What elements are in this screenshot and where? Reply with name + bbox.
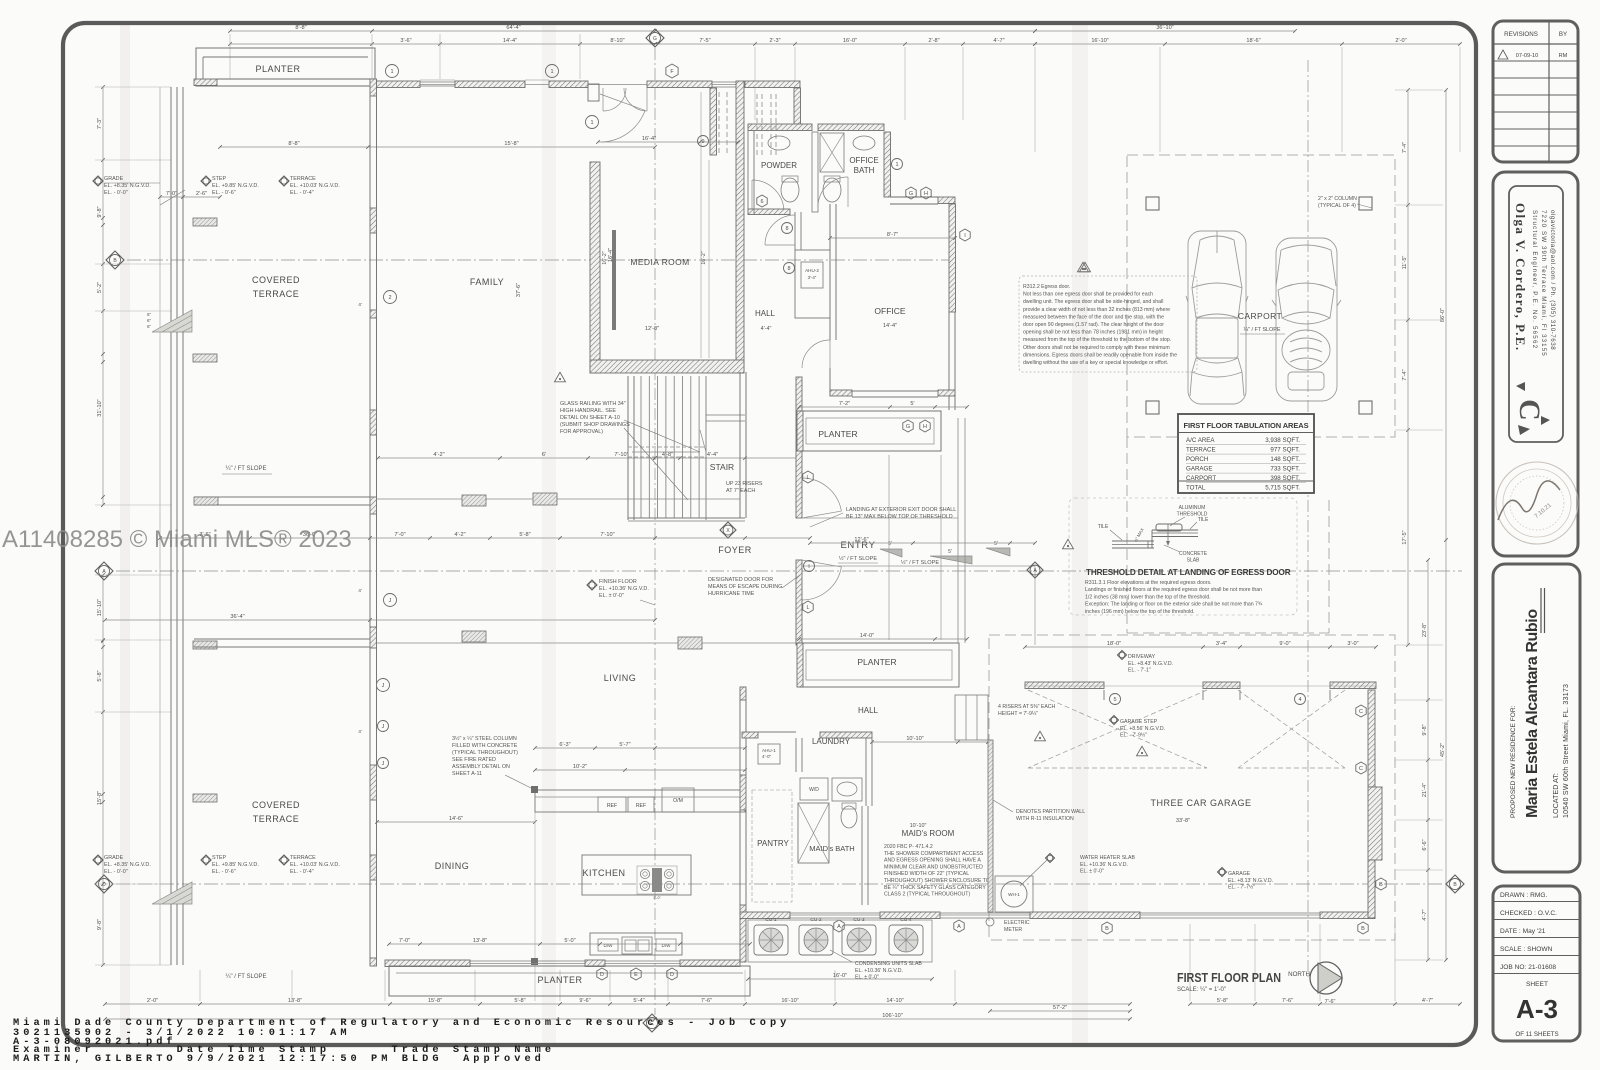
svg-text:A11408285 © Miami MLS® 2023: A11408285 © Miami MLS® 2023: [2, 526, 352, 553]
svg-text:TERRACE: TERRACE: [290, 176, 316, 182]
svg-text:PLANTER: PLANTER: [255, 64, 300, 74]
svg-text:GARAGE: GARAGE: [1186, 466, 1212, 473]
svg-text:L: L: [806, 605, 809, 611]
svg-text:EL. +10.36' N.G.V.D.: EL. +10.36' N.G.V.D.: [855, 968, 903, 974]
bottom wall kitchen wing: [385, 960, 470, 967]
svg-text:2'-6": 2'-6": [196, 191, 207, 197]
svg-text:HEIGHT = 7'-9¼": HEIGHT = 7'-9¼": [998, 711, 1038, 717]
svg-text:CHECKED : O.V.C.: CHECKED : O.V.C.: [1500, 910, 1557, 917]
revisions box: [1493, 21, 1578, 162]
svg-text:4'-2": 4'-2": [433, 452, 444, 458]
svg-text:EL. +9.85' N.G.V.D.: EL. +9.85' N.G.V.D.: [212, 183, 259, 189]
svg-text:7'-2": 7'-2": [839, 401, 850, 407]
glass railing note: [555, 372, 566, 382]
svg-text:6: 6: [760, 199, 763, 205]
car 2: [1272, 238, 1341, 401]
svg-text:10'-2": 10'-2": [573, 764, 587, 770]
wall terrace/family x=370: [370, 79, 377, 96]
svg-text:8: 8: [787, 266, 790, 272]
dashed chase above powder: [756, 94, 758, 158]
svg-text:OF 11 SHEETS: OF 11 SHEETS: [1515, 1031, 1558, 1038]
svg-text:CU-3: CU-3: [853, 917, 865, 923]
svg-text:DINING: DINING: [435, 861, 470, 871]
office walls: [829, 204, 831, 340]
svg-text:8'-7": 8'-7": [887, 232, 898, 238]
svg-text:Not less than one egress door: Not less than one egress door shall be p…: [1023, 292, 1153, 298]
svg-text:33'-8": 33'-8": [1176, 818, 1190, 824]
svg-text:MEDIA ROOM: MEDIA ROOM: [630, 257, 689, 267]
svg-text:EL. - 7'-1": EL. - 7'-1": [1128, 668, 1151, 674]
svg-text:3'-0": 3'-0": [1347, 641, 1358, 647]
svg-text:EL. +10.03' N.G.V.D.: EL. +10.03' N.G.V.D.: [290, 862, 340, 868]
carport dashed outline: [1127, 155, 1395, 437]
svg-text:dimensions. Egress doors shall: dimensions. Egress doors shall be readil…: [1023, 352, 1177, 358]
media av cabinet: [612, 230, 616, 330]
svg-text:EL. - 0'-6": EL. - 0'-6": [212, 190, 236, 196]
condensing units slab: [748, 920, 932, 962]
svg-text:EL. - 7'-9½": EL. - 7'-9½": [1120, 732, 1147, 739]
svg-text:TERRACE: TERRACE: [290, 855, 316, 861]
office south wall: [830, 390, 852, 396]
svg-text:5'-8": 5'-8": [1217, 998, 1228, 1004]
svg-text:FINISHED WIDTH OF 22" (TYPICAL: FINISHED WIDTH OF 22" (TYPICAL: [884, 871, 969, 877]
NE wing walls: [745, 81, 800, 88]
svg-text:D: D: [670, 972, 674, 978]
svg-text:7'-4": 7'-4": [1402, 369, 1408, 380]
terrace mid slab edges: [194, 496, 370, 498]
right dimension chains: [1407, 90, 1409, 645]
svg-text:EL. ± 0'-0": EL. ± 0'-0": [855, 975, 879, 981]
hex bubbles bottom: [597, 968, 607, 980]
wall right of stair: [739, 372, 741, 518]
grid diamond right: [1446, 875, 1464, 893]
svg-text:EL. +8.56' N.G.V.D.: EL. +8.56' N.G.V.D.: [1120, 726, 1165, 732]
svg-text:733 SQFT.: 733 SQFT.: [1270, 466, 1300, 473]
wall top family: [375, 81, 420, 88]
svg-text:C: C: [1359, 766, 1363, 772]
media room left wall: [590, 162, 600, 373]
svg-text:STEP: STEP: [212, 176, 226, 182]
condensing unit CU-3: [842, 925, 876, 955]
svg-text:5': 5': [948, 549, 952, 555]
svg-text:STEP: STEP: [212, 855, 226, 861]
svg-text:HALL: HALL: [858, 706, 879, 715]
svg-text:A/C AREA: A/C AREA: [1186, 437, 1215, 444]
svg-text:6'-6": 6'-6": [1422, 839, 1428, 850]
svg-text:(TYPICAL OF 4): (TYPICAL OF 4): [1318, 203, 1356, 209]
svg-text:A-3: A-3: [1516, 994, 1558, 1024]
svg-text:DETAIL ON SHEET A-10: DETAIL ON SHEET A-10: [560, 415, 620, 421]
wall notch: [588, 84, 599, 101]
svg-text:B: B: [1379, 882, 1383, 888]
svg-text:11'-5": 11'-5": [1402, 256, 1408, 270]
garage door X braces: [1028, 690, 1207, 768]
svg-text:12'-8": 12'-8": [645, 326, 659, 332]
bottom wall maids wing: [740, 912, 790, 919]
svg-text:9'-0": 9'-0": [1279, 641, 1290, 647]
svg-text:UP 23 RISERS: UP 23 RISERS: [726, 481, 763, 487]
svg-text:6'-3": 6'-3": [559, 742, 570, 748]
svg-text:door open 90 degrees (1.57 rad: door open 90 degrees (1.57 rad). The cle…: [1023, 322, 1164, 328]
svg-text:SEE FIRE RATED: SEE FIRE RATED: [452, 757, 496, 763]
svg-text:B: B: [1361, 926, 1365, 932]
svg-text:FINISH FLOOR: FINISH FLOOR: [599, 579, 637, 585]
svg-text:1: 1: [590, 120, 593, 126]
svg-text:18'-6": 18'-6": [1246, 38, 1260, 44]
svg-text:LANDING AT EXTERIOR EXIT DOOR: LANDING AT EXTERIOR EXIT DOOR SHALL: [846, 507, 956, 513]
svg-text:R311.3.1 Floor elevations at t: R311.3.1 Floor elevations at the require…: [1085, 580, 1212, 586]
grid diamond bottom: [643, 1014, 661, 1032]
svg-text:4'-4": 4'-4": [761, 326, 772, 332]
engineer box: [1493, 172, 1578, 556]
shower with X: [820, 133, 844, 172]
svg-text:EL. +10.03' N.G.V.D.: EL. +10.03' N.G.V.D.: [290, 183, 340, 189]
svg-text:1/2 inches (38 mm) lower than: 1/2 inches (38 mm) lower than the top of…: [1085, 594, 1211, 600]
svg-text:36'-4": 36'-4": [230, 614, 244, 620]
svg-text:OFFICE: OFFICE: [849, 156, 878, 165]
svg-text:Structural Engineer, P.E. No.: Structural Engineer, P.E. No. 56562: [1531, 210, 1538, 349]
svg-text:4'-0": 4'-0": [762, 754, 772, 759]
svg-text:GARAGE STEP: GARAGE STEP: [1120, 719, 1158, 725]
media column wall: [710, 88, 717, 155]
svg-text:148 SQFT.: 148 SQFT.: [1270, 456, 1300, 463]
condensing unit CU-1: [754, 925, 788, 955]
AHU-1: [758, 744, 780, 764]
svg-text:BE 13" MAX BELOW TOP OF THRESH: BE 13" MAX BELOW TOP OF THRESHOLD: [846, 514, 953, 520]
powder west wall: [747, 131, 749, 215]
beam line y=643: [377, 642, 799, 644]
svg-text:4': 4': [358, 302, 362, 308]
svg-text:HURRICANE TIME: HURRICANE TIME: [708, 591, 755, 597]
svg-text:07-09-10: 07-09-10: [1516, 53, 1538, 59]
planter mid: [799, 411, 941, 451]
svg-text:DRAWN : RMG.: DRAWN : RMG.: [1500, 892, 1548, 899]
east wall of foyer court: [796, 377, 802, 430]
svg-text:REVISIONS: REVISIONS: [1504, 31, 1538, 38]
svg-text:MEANS OF ESCAPE DURING: MEANS OF ESCAPE DURING: [708, 584, 782, 590]
svg-text:THREE CAR GARAGE: THREE CAR GARAGE: [1150, 798, 1251, 808]
condensing unit CU-4: [889, 925, 923, 955]
svg-text:57'-2": 57'-2": [1053, 1005, 1067, 1011]
threshold detail sketch: [1069, 498, 1297, 615]
entry steps: [880, 549, 902, 557]
svg-text:BY: BY: [1559, 31, 1567, 38]
svg-text:6": 6": [147, 312, 152, 317]
svg-text:A: A: [957, 924, 961, 930]
svg-text:dwelling unit. The egress door: dwelling unit. The egress door shall be …: [1023, 299, 1163, 305]
svg-text:SHEET A-11: SHEET A-11: [452, 771, 482, 777]
svg-text:EL. - 0'-4": EL. - 0'-4": [290, 869, 314, 875]
svg-text:G: G: [906, 424, 910, 430]
svg-text:9'-8": 9'-8": [1422, 724, 1428, 735]
garage dashed overhang: [989, 635, 1395, 940]
svg-text:½" / FT SLOPE: ½" / FT SLOPE: [901, 559, 940, 566]
svg-text:5'-4": 5'-4": [633, 998, 644, 1004]
svg-text:PORCH: PORCH: [1186, 456, 1208, 463]
svg-text:2'-0": 2'-0": [1395, 38, 1406, 44]
kitchen sink counter bottom: [590, 933, 682, 955]
step hatch blocks left: [193, 218, 217, 226]
svg-text:1: 1: [895, 162, 898, 168]
svg-text:PROPOSED NEW RESIDENCE FOR:: PROPOSED NEW RESIDENCE FOR:: [1510, 705, 1517, 818]
bottom dimension chains: [105, 1003, 1130, 1005]
toilets: [781, 178, 799, 202]
svg-text:MINIMUM CLEAR AND UNOBSTRUCTED: MINIMUM CLEAR AND UNOBSTRUCTED: [884, 864, 983, 870]
svg-text:RM: RM: [1559, 53, 1568, 59]
svg-text:2: 2: [388, 295, 391, 301]
svg-text:AND EGRESS OPENING SHALL HAVE: AND EGRESS OPENING SHALL HAVE A: [884, 858, 981, 864]
svg-text:SCALE : SHOWN: SCALE : SHOWN: [1500, 946, 1553, 953]
svg-text:CONDENSING UNITS SLAB: CONDENSING UNITS SLAB: [855, 961, 922, 967]
svg-text:3,938 SQFT.: 3,938 SQFT.: [1265, 437, 1300, 444]
svg-text:BE ¼" THICK SAFETY GLASS CATEG: BE ¼" THICK SAFETY GLASS CATEGORY: [884, 885, 986, 891]
grade/step/terrace elevation notes bottom: [93, 855, 103, 865]
svg-text:SLAB: SLAB: [1187, 558, 1200, 564]
left dimension chain: [102, 87, 104, 505]
svg-text:FIRST FLOOR PLAN: FIRST FLOOR PLAN: [1177, 970, 1281, 985]
svg-text:TERRACE: TERRACE: [253, 814, 300, 824]
svg-text:EL. +8.35' N.G.V.D.: EL. +8.35' N.G.V.D.: [104, 183, 151, 189]
svg-text:EL. +10.36' N.G.V.D.: EL. +10.36' N.G.V.D.: [1080, 862, 1128, 868]
svg-text:2'-0": 2'-0": [147, 998, 158, 1004]
svg-text:REF: REF: [607, 803, 617, 809]
svg-text:2020 FBC P- 471.4.2: 2020 FBC P- 471.4.2: [884, 844, 933, 850]
svg-text:TILE: TILE: [1198, 517, 1209, 523]
svg-text:AT 7" EACH: AT 7" EACH: [726, 488, 755, 494]
svg-text:106'-10": 106'-10": [882, 1013, 902, 1019]
grid bubbles row y=71: [386, 65, 399, 78]
vertical grid centerline x=655: [654, 48, 656, 1015]
svg-text:¼" / FT SLOPE: ¼" / FT SLOPE: [225, 974, 266, 980]
svg-text:J: J: [382, 761, 385, 767]
svg-text:EL. - 0'-0": EL. - 0'-0": [104, 190, 128, 196]
office door arc: [802, 340, 830, 368]
svg-text:HIGH HANDRAIL. SEE: HIGH HANDRAIL. SEE: [560, 408, 616, 414]
svg-text:4'-7": 4'-7": [993, 38, 1004, 44]
svg-text:15'-10": 15'-10": [97, 599, 103, 616]
svg-text:GARAGE: GARAGE: [1228, 871, 1251, 877]
svg-text:FIRST FLOOR TABULATION AREAS: FIRST FLOOR TABULATION AREAS: [1184, 421, 1309, 430]
svg-text:COVERED: COVERED: [252, 800, 300, 810]
svg-text:MARTIN, GILBERTO 9/9/2021 12:1: MARTIN, GILBERTO 9/9/2021 12:17:50 PM BL…: [13, 1053, 545, 1065]
svg-text:O/M: O/M: [673, 798, 683, 804]
grid diamond left mid: [95, 562, 113, 580]
svg-text:EL. - 7'-7½": EL. - 7'-7½": [1228, 884, 1255, 891]
svg-text:THROUGHOUT) SHOWER ENCLOSURE T: THROUGHOUT) SHOWER ENCLOSURE TO: [884, 878, 990, 884]
svg-text:olgavictoria@aol.com / Ph. (30: olgavictoria@aol.com / Ph. (305) 310-763…: [1549, 210, 1556, 350]
svg-text:EL. +9.85' N.G.V.D.: EL. +9.85' N.G.V.D.: [212, 862, 259, 868]
svg-text:10'-10": 10'-10": [906, 736, 923, 742]
hall door arc: [765, 215, 795, 245]
car 1: [1186, 231, 1248, 404]
svg-text:977 SQFT.: 977 SQFT.: [1270, 447, 1300, 454]
svg-text:MAID's ROOM: MAID's ROOM: [902, 829, 955, 838]
svg-text:dwelling without the use of a: dwelling without the use of a key or spe…: [1023, 360, 1168, 366]
svg-text:DATE : May '21: DATE : May '21: [1500, 928, 1546, 935]
svg-text:FOYER: FOYER: [718, 545, 752, 555]
svg-text:PANTRY: PANTRY: [757, 839, 789, 848]
svg-text:THRESHOLD DETAIL AT LANDING OF: THRESHOLD DETAIL AT LANDING OF EGRESS DO…: [1086, 568, 1291, 577]
laundry fixtures W/D sink: [800, 778, 828, 800]
svg-text:5'-8": 5'-8": [514, 998, 525, 1004]
hall/laundry walls: [742, 732, 758, 738]
svg-text:DESIGNATED DOOR FOR: DESIGNATED DOOR FOR: [708, 577, 773, 583]
svg-text:18'-0": 18'-0": [1107, 641, 1121, 647]
electric meter: [986, 918, 994, 926]
svg-text:ELECTRIC: ELECTRIC: [1004, 920, 1030, 926]
svg-text:KITCHEN: KITCHEN: [582, 868, 625, 878]
svg-text:measured from the top of the t: measured from the top of the threshold t…: [1023, 337, 1171, 343]
svg-text:Maria Estela Alcantara Rubio: Maria Estela Alcantara Rubio: [1524, 609, 1541, 818]
svg-text:CARPORT: CARPORT: [1238, 311, 1282, 321]
garage top wall: [1025, 682, 1104, 689]
svg-text:EL. +8.13' N.G.V.D.: EL. +8.13' N.G.V.D.: [1228, 878, 1273, 884]
stamp + signature: [1496, 462, 1578, 544]
svg-text:FOR APPROVAL): FOR APPROVAL): [560, 429, 603, 435]
svg-text:MAID's BATH: MAID's BATH: [809, 844, 854, 853]
media room right wall: [736, 81, 744, 373]
svg-text:inches (196 mm) below the top: inches (196 mm) below the top of the thr…: [1085, 609, 1195, 615]
svg-text:H: H: [924, 191, 928, 197]
svg-text:G: G: [909, 191, 913, 197]
svg-text:J: J: [382, 724, 385, 730]
svg-text:6": 6": [147, 324, 152, 329]
svg-text:45'-2": 45'-2": [1440, 743, 1446, 757]
svg-text:CU-2: CU-2: [810, 917, 822, 923]
planter top-left: [196, 48, 375, 86]
svg-text:7'-0": 7'-0": [399, 938, 410, 944]
svg-text:7'-5": 7'-5": [699, 38, 710, 44]
svg-text:Exception: The landing or floo: Exception: The landing or floor on the e…: [1085, 602, 1263, 608]
svg-text:WH-1: WH-1: [1008, 892, 1020, 897]
svg-text:17'-5": 17'-5": [1402, 530, 1408, 544]
svg-text:GRADE: GRADE: [104, 855, 124, 861]
garage step: [955, 695, 988, 740]
svg-text:Other doors shall not be requi: Other doors shall not be required to com…: [1023, 345, 1170, 351]
svg-text:4': 4': [358, 588, 362, 594]
svg-text:OFFICE: OFFICE: [874, 306, 905, 316]
grid bubble G top: [646, 29, 664, 47]
extension lines bottom: [199, 970, 201, 1001]
svg-text:GLASS RAILING WITH 34": GLASS RAILING WITH 34": [560, 401, 626, 407]
svg-text:14'-10": 14'-10": [886, 998, 903, 1004]
svg-text:H: H: [923, 424, 927, 430]
svg-text:EL. +10.36' N.G.V.D.: EL. +10.36' N.G.V.D.: [599, 586, 649, 592]
vertical grid centerline x=1308: [1307, 60, 1309, 978]
svg-text:9'-6": 9'-6": [579, 998, 590, 1004]
svg-text:BATH: BATH: [854, 166, 875, 175]
svg-text:1: 1: [390, 69, 393, 75]
svg-text:J: J: [382, 683, 385, 689]
svg-text:2" x 2" COLUMN: 2" x 2" COLUMN: [1318, 196, 1357, 202]
svg-text:AHU-1: AHU-1: [762, 748, 776, 753]
svg-text:4'-2": 4'-2": [454, 532, 465, 538]
svg-text:4'-7": 4'-7": [1422, 998, 1433, 1004]
top dimension chains: [230, 30, 1035, 32]
svg-text:3'-6": 3'-6": [400, 38, 411, 44]
svg-text:3'-4": 3'-4": [1216, 641, 1227, 647]
svg-text:POWDER: POWDER: [761, 161, 797, 170]
svg-text:7'-4": 7'-4": [1402, 142, 1408, 153]
svg-text:TILE: TILE: [1098, 524, 1109, 530]
svg-text:13'-8": 13'-8": [473, 938, 487, 944]
svg-text:64'-4": 64'-4": [506, 25, 520, 31]
svg-text:7'-10": 7'-10": [614, 452, 628, 458]
svg-text:5'-0": 5'-0": [564, 938, 575, 944]
svg-text:EL. +8.35' N.G.V.D.: EL. +8.35' N.G.V.D.: [104, 862, 151, 868]
svg-text:EL. - 0'-6": EL. - 0'-6": [212, 869, 236, 875]
svg-text:ALUMINUM: ALUMINUM: [1179, 505, 1206, 511]
svg-text:9'-8": 9'-8": [97, 919, 103, 930]
svg-text:5,715 SQFT.: 5,715 SQFT.: [1265, 485, 1300, 492]
svg-text:5'-8": 5'-8": [97, 670, 103, 681]
bottom wall kitchen wing continuity: [385, 963, 740, 965]
svg-text:7'-3": 7'-3": [97, 118, 103, 129]
sheet info box: [1493, 886, 1580, 1041]
svg-text:6": 6": [147, 318, 152, 323]
svg-text:16'-0": 16'-0": [843, 38, 857, 44]
svg-text:REF: REF: [636, 803, 646, 809]
svg-text:3'-4": 3'-4": [808, 275, 817, 280]
water heater: [995, 876, 1033, 912]
svg-text:7220 SW 39th Terrace Miami, Fl: 7220 SW 39th Terrace Miami, Fl 33155: [1540, 210, 1547, 357]
svg-text:4'-7": 4'-7": [1422, 909, 1428, 920]
sinks: [768, 136, 790, 150]
svg-text:15'-8": 15'-8": [428, 998, 442, 1004]
svg-text:PLANTER: PLANTER: [537, 975, 582, 985]
svg-text:PLANTER: PLANTER: [818, 429, 857, 439]
svg-text:23'-8": 23'-8": [1422, 623, 1428, 637]
grid diamond B left: [106, 251, 124, 269]
svg-text:14'-4": 14'-4": [883, 323, 897, 329]
planter low: [799, 643, 959, 687]
svg-text:¼" / FT SLOPE: ¼" / FT SLOPE: [225, 466, 266, 472]
wall north terrace: [194, 79, 217, 86]
svg-text:5'-2": 5'-2": [97, 282, 103, 293]
svg-text:EL. +8.43' N.G.V.D.: EL. +8.43' N.G.V.D.: [1128, 661, 1173, 667]
svg-text:CONCRETE: CONCRETE: [1179, 551, 1208, 557]
condensing unit CU-2: [799, 925, 833, 955]
media door dashed: [718, 92, 720, 155]
svg-text:1: 1: [550, 69, 553, 75]
svg-text:DENOTES PARTITION WALL: DENOTES PARTITION WALL: [1016, 809, 1085, 815]
first floor tabulation areas table: [1178, 414, 1314, 493]
svg-text:5': 5': [910, 401, 914, 407]
svg-text:14'-6": 14'-6": [449, 816, 463, 822]
svg-text:FILLED WITH CONCRETE: FILLED WITH CONCRETE: [452, 743, 518, 749]
svg-text:ASSEMBLY DETAIL ON: ASSEMBLY DETAIL ON: [452, 764, 510, 770]
svg-text:16'-4": 16'-4": [642, 136, 656, 142]
extension lines left: [95, 86, 171, 88]
svg-text:4: 4: [1298, 697, 1301, 703]
svg-text:13'-8": 13'-8": [288, 998, 302, 1004]
svg-text:4'-4": 4'-4": [707, 452, 718, 458]
office bath door arc: [818, 177, 848, 207]
planter bottom: [389, 966, 750, 996]
garage left partition: [988, 740, 993, 912]
svg-text:7'-0": 7'-0": [394, 532, 405, 538]
svg-text:JOB NO: 21-01608: JOB NO: 21-01608: [1500, 964, 1556, 971]
svg-text:PLANTER: PLANTER: [857, 657, 896, 667]
interior walls maids: [865, 738, 867, 806]
svg-text:(TYPICAL THROUGHOUT): (TYPICAL THROUGHOUT): [452, 750, 518, 756]
svg-text:WITH R-11 INSULATION: WITH R-11 INSULATION: [1016, 816, 1074, 822]
carport columns: [1146, 197, 1159, 210]
svg-text:8'-8": 8'-8": [288, 141, 299, 147]
svg-text:B: B: [1105, 926, 1109, 932]
svg-text:CU-1: CU-1: [765, 917, 777, 923]
stair rail dashed: [628, 447, 706, 457]
